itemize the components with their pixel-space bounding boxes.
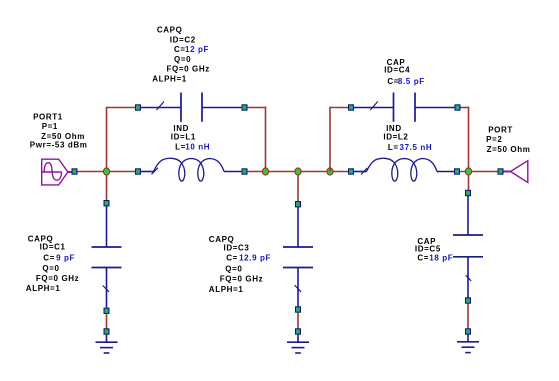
svg-text:ALPH=1: ALPH=1 bbox=[152, 75, 187, 84]
terminal C3 pin 2 bbox=[295, 306, 301, 312]
slash mark C1 bbox=[103, 286, 109, 292]
wire corner down to node B bbox=[265, 107, 267, 172]
svg-text:C=: C= bbox=[43, 254, 55, 263]
terminal C2 pin 2 bbox=[242, 104, 248, 110]
wire node B to node D through node C bbox=[248, 171, 349, 173]
wire C4 right lead bbox=[415, 107, 455, 109]
slash mark L2 bbox=[361, 168, 367, 175]
port P2 symbol bbox=[504, 161, 528, 183]
terminal C5 pin 1 bbox=[465, 190, 471, 196]
svg-text:Q=0: Q=0 bbox=[174, 55, 191, 64]
capacitor C3 plates bbox=[283, 247, 313, 268]
svg-text:P=1: P=1 bbox=[42, 122, 58, 131]
svg-text:C=: C= bbox=[174, 45, 186, 54]
svg-text:Q=0: Q=0 bbox=[42, 264, 59, 273]
port P1 symbol bbox=[42, 159, 72, 185]
capacitor C5 plates bbox=[453, 235, 483, 257]
svg-text:18 pF: 18 pF bbox=[429, 254, 453, 263]
terminal port P2 bbox=[498, 168, 504, 174]
junction node C bbox=[295, 168, 301, 175]
svg-text:Q=0: Q=0 bbox=[225, 265, 242, 274]
slash mark C2 bbox=[157, 102, 165, 111]
slash mark C5 bbox=[466, 275, 472, 281]
wire C2 left lead bbox=[141, 107, 181, 109]
junction node D bbox=[327, 168, 333, 175]
wire port1 to node A bbox=[78, 171, 105, 173]
wire node E down to C5 bbox=[468, 175, 470, 191]
wire node C down to C3 bbox=[297, 175, 299, 202]
svg-text:ID=L2: ID=L2 bbox=[383, 133, 408, 142]
terminal L2 pin 1 bbox=[348, 168, 354, 174]
wire node E to port P2 bbox=[460, 171, 498, 173]
inductor L2 coil bbox=[367, 158, 438, 181]
wire node A down to C1 bbox=[106, 175, 108, 201]
terminal L1 pin 2 bbox=[242, 168, 248, 174]
slash mark L1 bbox=[152, 168, 159, 175]
wire C4 pin 2 to corner bbox=[461, 107, 470, 109]
junction node A bbox=[103, 168, 109, 175]
svg-text:FQ=0 GHz: FQ=0 GHz bbox=[167, 65, 210, 74]
junction node B bbox=[262, 168, 268, 175]
wire C3 lower lead bbox=[297, 268, 299, 307]
terminal port P1 bbox=[72, 168, 78, 174]
svg-text:12 pF: 12 pF bbox=[185, 45, 209, 54]
svg-text:FQ=0 GHz: FQ=0 GHz bbox=[220, 275, 263, 284]
wire C3 to ground terminal bbox=[297, 313, 299, 329]
wire L1 left lead bbox=[141, 171, 154, 173]
wire C5 lower lead bbox=[467, 257, 469, 298]
terminal C3 ground pin bbox=[295, 328, 301, 334]
wire C1 upper lead bbox=[106, 206, 108, 247]
svg-text:FQ=0 GHz: FQ=0 GHz bbox=[36, 274, 79, 283]
svg-text:ALPH=1: ALPH=1 bbox=[209, 285, 244, 294]
svg-text:ALPH=1: ALPH=1 bbox=[26, 284, 61, 293]
wire node A up-rail to C2 pin 1 bbox=[107, 107, 136, 109]
svg-text:ID=C2: ID=C2 bbox=[170, 36, 196, 45]
wire C1 to ground terminal bbox=[106, 314, 108, 329]
svg-text:L=: L= bbox=[388, 143, 399, 152]
terminal C1 ground pin bbox=[104, 328, 110, 334]
svg-text:Z=50 Ohm: Z=50 Ohm bbox=[487, 145, 531, 154]
svg-text:C=: C= bbox=[417, 254, 429, 263]
svg-text:P=2: P=2 bbox=[486, 135, 502, 144]
svg-text:ID=C4: ID=C4 bbox=[384, 65, 410, 74]
terminal C4 pin 1 bbox=[348, 104, 354, 110]
wire C3 upper lead bbox=[297, 207, 299, 247]
wire C1 lower lead bbox=[106, 268, 108, 308]
svg-text:10 nH: 10 nH bbox=[185, 143, 210, 152]
terminal L2 pin 2 bbox=[454, 168, 460, 174]
wire node D vertical riser bbox=[329, 107, 331, 172]
ground (C1) bbox=[96, 342, 118, 353]
wire node A to L1 pin 1 bbox=[110, 171, 136, 173]
wire C5 upper lead bbox=[467, 196, 469, 235]
slash mark C4 bbox=[370, 102, 378, 111]
wire C5 to ground terminal bbox=[467, 304, 469, 329]
svg-text:ID=C5: ID=C5 bbox=[415, 244, 441, 253]
wire L1 right lead bbox=[224, 171, 242, 173]
svg-text:L=: L= bbox=[175, 143, 186, 152]
capacitor C4 plates bbox=[394, 93, 416, 122]
svg-text:CAPQ: CAPQ bbox=[157, 26, 183, 35]
svg-text:PORT: PORT bbox=[488, 125, 513, 134]
svg-text:PORT1: PORT1 bbox=[33, 113, 63, 122]
ground (C5) bbox=[457, 342, 479, 353]
svg-text:ID=C1: ID=C1 bbox=[40, 243, 66, 252]
slash mark C3 bbox=[295, 285, 301, 292]
terminal C3 pin 1 bbox=[295, 201, 301, 207]
wire C2 pin 2 to corner bbox=[248, 107, 267, 109]
terminal C5 pin 2 bbox=[465, 297, 471, 303]
terminal C1 pin 2 bbox=[104, 308, 110, 314]
wire corner to C4 pin 1 bbox=[330, 107, 348, 109]
svg-text:8.5 pF: 8.5 pF bbox=[398, 77, 425, 86]
svg-text:12.9 pF: 12.9 pF bbox=[239, 254, 271, 263]
svg-text:9 pF: 9 pF bbox=[56, 254, 75, 263]
terminal C4 pin 2 bbox=[455, 104, 461, 110]
wire C1 ground lead bbox=[106, 335, 108, 343]
wire L2 left lead bbox=[354, 171, 367, 173]
wire L2 right lead bbox=[437, 171, 454, 173]
terminal L1 pin 1 bbox=[135, 168, 141, 174]
wire node A vertical riser bbox=[106, 107, 108, 172]
ground (C3) bbox=[287, 342, 309, 353]
wire C3 ground lead bbox=[297, 335, 299, 343]
wire C5 ground lead bbox=[467, 335, 469, 342]
wire corner down to node E bbox=[468, 107, 470, 172]
inductor L1 coil bbox=[154, 158, 225, 181]
terminal C5 ground pin bbox=[465, 328, 471, 334]
svg-text:Z=50 Ohm: Z=50 Ohm bbox=[41, 132, 85, 141]
wire C4 left lead bbox=[354, 107, 394, 109]
svg-text:ID=C3: ID=C3 bbox=[224, 243, 250, 252]
svg-text:Pwr=-53 dBm: Pwr=-53 dBm bbox=[30, 141, 88, 150]
wire C2 right lead bbox=[202, 107, 242, 109]
capacitor C2 plates bbox=[181, 93, 202, 122]
terminal C1 pin 1 bbox=[104, 200, 110, 206]
terminal C2 pin 1 bbox=[135, 104, 141, 110]
capacitor C1 plates bbox=[92, 247, 122, 268]
svg-text:ID=L1: ID=L1 bbox=[171, 132, 196, 141]
junction node E bbox=[465, 168, 471, 175]
svg-text:37.5 nH: 37.5 nH bbox=[400, 143, 433, 152]
svg-text:C=: C= bbox=[226, 254, 238, 263]
